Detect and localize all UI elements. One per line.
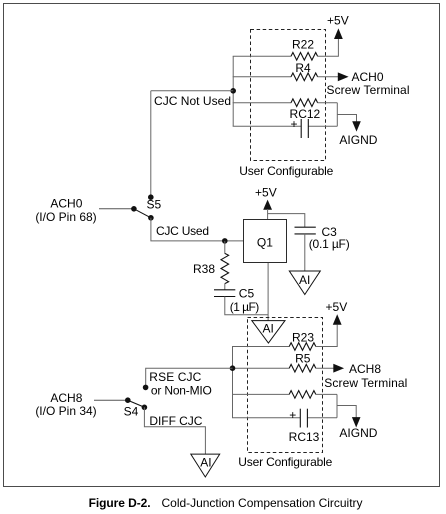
svg-text:AIGND: AIGND	[339, 133, 377, 147]
svg-text:+: +	[290, 117, 297, 131]
wire: top-left bus vertical	[232, 56, 234, 126]
wire: R5 to ACH8 arrow	[316, 367, 334, 369]
svg-text:AI: AI	[200, 456, 211, 470]
svg-text:ACH0: ACH0	[352, 70, 384, 84]
svg-text:R38: R38	[193, 262, 215, 276]
svg-text:(I/O Pin 68): (I/O Pin 68)	[35, 210, 96, 224]
svg-text:Q1: Q1	[257, 235, 273, 249]
svg-text:ACH8: ACH8	[50, 391, 82, 405]
resistor R38	[221, 253, 229, 283]
dashed box: user configurable (bottom)	[248, 318, 323, 453]
wire: DIFF CJC path to AI	[144, 407, 205, 454]
wire: R4 to ACH0 arrow	[317, 76, 338, 78]
wire: R38 to C5	[224, 284, 226, 290]
terminal arrow ACH0	[338, 72, 349, 81]
wire: R23 to +5V corner	[316, 325, 338, 347]
wire: CJC Not Used horizontal	[151, 90, 233, 92]
wire: RC13 right connector	[336, 394, 338, 417]
wire: +5V rail to C3	[268, 214, 305, 227]
capacitor C3	[295, 226, 316, 228]
power +5V (top)	[334, 28, 343, 39]
wire: CJC Not Used vertical down to S5	[150, 91, 152, 197]
wire: RSE CJC branch	[146, 368, 233, 385]
svg-text:+: +	[289, 408, 296, 422]
wire: RC12 capacitor row	[233, 125, 302, 127]
svg-text:(0.1 µF): (0.1 µF)	[309, 237, 350, 251]
wire: RC12 resistor row	[233, 102, 292, 104]
transistor Q1	[244, 220, 287, 263]
svg-text:Figure D-2.: Figure D-2.	[89, 496, 151, 510]
svg-text:CJC Not Used: CJC Not Used	[154, 94, 231, 108]
wire: R5 row left segment	[232, 367, 289, 369]
svg-text:ACH0: ACH0	[50, 197, 82, 211]
svg-text:R22: R22	[292, 38, 314, 52]
svg-text:S5: S5	[147, 198, 162, 212]
ground AI (Q1 output)	[252, 321, 285, 343]
svg-text:+5V: +5V	[255, 185, 277, 199]
wire: Q1 bottom to AI	[267, 263, 269, 321]
switch S4	[143, 385, 149, 391]
dashed box: user configurable (top)	[251, 30, 326, 161]
svg-text:AI: AI	[299, 273, 310, 287]
wire: ACH8 lead	[94, 399, 128, 401]
switch S5	[148, 194, 154, 200]
svg-text:AIGND: AIGND	[339, 426, 377, 440]
svg-text:or Non-MIO: or Non-MIO	[151, 383, 212, 397]
svg-text:AI: AI	[263, 322, 274, 336]
wire: R22 row left segment	[233, 55, 292, 57]
svg-text:+5V: +5V	[326, 300, 348, 314]
wire: C5 to AI node	[225, 297, 268, 315]
terminal arrow ACH8	[333, 364, 344, 373]
wire: RC13 resistor row	[232, 393, 289, 395]
resistor of RC12	[291, 99, 318, 107]
capacitor C5	[214, 289, 235, 291]
resistor R4	[291, 73, 318, 81]
capacitor of RC13 (polarized)	[299, 409, 301, 428]
svg-text:+5V: +5V	[327, 13, 349, 27]
svg-text:RSE CJC: RSE CJC	[149, 370, 201, 384]
wire: RC12 right connector	[336, 103, 338, 127]
ground AI (C3)	[289, 271, 320, 295]
wire: R4 row left segment	[233, 76, 292, 78]
svg-text:Screw Terminal: Screw Terminal	[324, 376, 407, 390]
svg-text:S4: S4	[124, 404, 139, 418]
svg-text:R5: R5	[295, 352, 311, 366]
svg-text:RC13: RC13	[289, 430, 320, 444]
svg-text:User Configurable: User Configurable	[238, 455, 332, 469]
svg-text:DIFF CJC: DIFF CJC	[149, 414, 202, 428]
wire: S5 to CJC Used row	[151, 218, 244, 241]
node: junction dot R38 branch	[222, 238, 228, 244]
svg-text:Screw Terminal: Screw Terminal	[327, 83, 410, 97]
svg-text:Cold-Junction Compensation Cir: Cold-Junction Compensation Circuitry	[162, 496, 363, 510]
ground AI (DIFF CJC)	[191, 454, 220, 477]
wire: bottom-left bus vertical	[232, 347, 234, 418]
svg-text:(I/O Pin 34): (I/O Pin 34)	[35, 404, 96, 418]
svg-text:ACH8: ACH8	[349, 362, 381, 376]
ground AIGND (top)	[352, 121, 361, 131]
resistor R22	[291, 53, 318, 61]
wire: R23 row left segment	[232, 346, 289, 348]
wire: R22 to +5V corner	[317, 38, 338, 56]
svg-text:(1 µF): (1 µF)	[230, 300, 259, 314]
node: junction dot RSE branch	[230, 365, 236, 371]
capacitor of RC12 (polarized)	[300, 119, 302, 138]
wire: junction to R38	[224, 241, 226, 254]
wire: to AIGND (top)	[337, 115, 356, 124]
wire: RC13 capacitor row	[232, 417, 300, 419]
wire: to AIGND (bottom)	[337, 406, 356, 418]
svg-text:C5: C5	[239, 286, 255, 300]
resistor R23	[289, 343, 316, 351]
ground AIGND (bottom)	[352, 417, 361, 427]
node: junction dot on bus (CJC Not Used)	[230, 88, 236, 94]
wire: ACH0 lead	[99, 208, 134, 210]
svg-text:R23: R23	[292, 331, 314, 345]
svg-text:CJC Used: CJC Used	[156, 224, 209, 238]
resistor of RC13	[289, 391, 316, 399]
svg-text:User Configurable: User Configurable	[239, 164, 333, 178]
svg-text:R4: R4	[295, 61, 311, 75]
wire: C3 to AI	[304, 234, 306, 271]
power +5V (bottom)	[333, 314, 342, 325]
resistor R5	[289, 364, 316, 372]
